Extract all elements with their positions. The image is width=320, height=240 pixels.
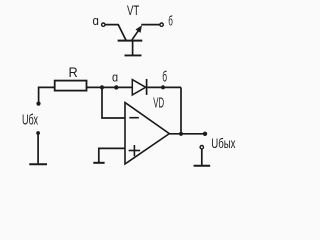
wire diode to corner (147, 86, 181, 88)
base end bar (125, 54, 142, 56)
plus sign (129, 150, 141, 152)
output terminal dot (203, 132, 207, 136)
output ground circle (200, 146, 203, 149)
node a dot (114, 85, 118, 89)
terminal a circle (102, 23, 105, 26)
transistor VT (93, 2, 173, 55)
svg-text:б: б (162, 69, 167, 86)
svg-text:Uбых: Uбых (211, 135, 235, 151)
input terminal dot (36, 102, 40, 106)
wire output ground lead (201, 149, 203, 165)
svg-text:VD: VD (153, 94, 164, 111)
terminal б circle (160, 23, 163, 26)
node б dot (161, 85, 165, 89)
wire non-inverting input to ground (99, 148, 125, 162)
wire emitter horizontal (141, 24, 160, 26)
wire to inverting input (102, 88, 125, 118)
ground input bar (29, 163, 47, 165)
svg-text:ɑ: ɑ (112, 70, 118, 85)
resistor R (55, 64, 87, 91)
junction dot output/feedback (179, 132, 183, 136)
cathode bar (146, 79, 148, 95)
minus sign (129, 117, 139, 119)
output port Uвых (194, 135, 236, 166)
wire input ground lead (37, 134, 39, 163)
op-amp U1 (125, 103, 169, 165)
input terminal Uвх (22, 87, 55, 164)
ground output bar (194, 165, 211, 167)
svg-text:R: R (69, 64, 78, 80)
wire input drop (39, 87, 55, 102)
wire collector lead (105, 25, 126, 41)
emitter lead with arrow (132, 30, 139, 40)
base lead (132, 41, 134, 55)
svg-text:Uбх: Uбх (22, 112, 38, 129)
wire output (169, 133, 205, 135)
wire resistor to diode (87, 86, 133, 88)
base bar (118, 40, 143, 42)
wire feedback down (180, 87, 182, 133)
junction dot to inverting input (100, 85, 104, 89)
diode VD (132, 79, 164, 111)
svg-text:б: б (168, 13, 173, 29)
svg-text:ɑ: ɑ (93, 13, 99, 28)
input ground dot (36, 131, 40, 135)
svg-text:VT: VT (127, 2, 140, 18)
ground op-amp bar (93, 162, 104, 164)
